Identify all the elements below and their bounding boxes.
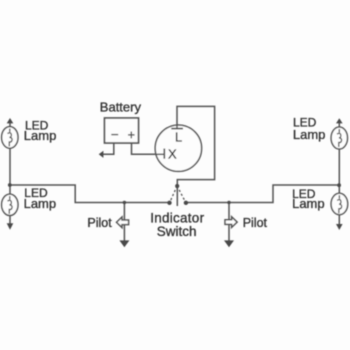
svg-text:Pilot: Pilot bbox=[87, 216, 112, 230]
svg-text:Lamp: Lamp bbox=[292, 196, 325, 211]
svg-text:Pilot: Pilot bbox=[243, 216, 268, 230]
svg-text:L: L bbox=[175, 130, 182, 145]
svg-text:Battery: Battery bbox=[100, 100, 142, 115]
svg-text:Indicator: Indicator bbox=[150, 210, 204, 225]
svg-text:Lamp: Lamp bbox=[24, 128, 57, 143]
svg-text:X: X bbox=[168, 147, 177, 162]
svg-text:Lamp: Lamp bbox=[24, 196, 57, 211]
svg-text:Switch: Switch bbox=[157, 224, 197, 239]
svg-text:Lamp: Lamp bbox=[293, 127, 326, 142]
